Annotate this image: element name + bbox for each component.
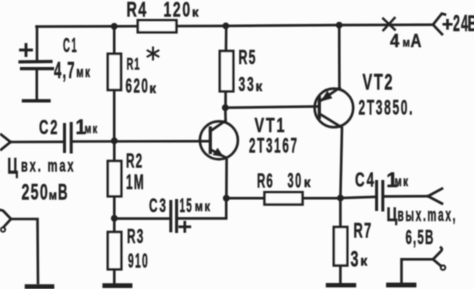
svg-text:1М: 1М (126, 171, 145, 194)
svg-text:2Т3850.: 2Т3850. (359, 95, 415, 120)
svg-text:910: 910 (128, 251, 149, 272)
svg-text:мк: мк (195, 199, 212, 215)
svg-text:к: к (360, 253, 368, 269)
svg-text:С2: С2 (39, 116, 59, 139)
svg-text:В: В (468, 11, 474, 36)
svg-text:120: 120 (164, 0, 192, 21)
svg-text:мк: мк (395, 173, 410, 189)
svg-text:В: В (58, 180, 68, 204)
svg-text:к: к (256, 79, 263, 94)
svg-text:30: 30 (288, 168, 303, 192)
svg-text:3: 3 (351, 246, 359, 271)
svg-text:вых.mах,: вых.mах, (398, 206, 458, 226)
svg-text:Ц: Ц (387, 203, 398, 226)
svg-text:мк: мк (76, 63, 91, 81)
svg-text:к: к (192, 5, 199, 20)
svg-text:мк: мк (85, 123, 99, 137)
svg-text:4,7: 4,7 (54, 57, 76, 83)
svg-text:24: 24 (453, 10, 469, 36)
svg-text:м: м (49, 187, 57, 202)
svg-text:м: м (403, 37, 411, 50)
svg-text:R5: R5 (239, 46, 257, 69)
svg-text:R7: R7 (354, 218, 373, 242)
svg-text:VT2: VT2 (363, 69, 395, 94)
svg-text:R2: R2 (126, 150, 143, 172)
svg-text:R4: R4 (127, 0, 148, 21)
svg-text:R6: R6 (257, 169, 274, 192)
svg-text:2Т3167: 2Т3167 (249, 134, 299, 157)
svg-text:вх. mах: вх. mах (21, 157, 75, 176)
svg-text:250: 250 (22, 179, 50, 204)
svg-text:С3: С3 (149, 196, 168, 216)
svg-text:А: А (411, 31, 422, 52)
svg-text:15: 15 (180, 196, 194, 217)
svg-text:620: 620 (126, 75, 150, 97)
svg-text:R1: R1 (127, 54, 141, 73)
svg-text:R3: R3 (127, 226, 144, 248)
svg-text:к: к (149, 81, 156, 96)
svg-text:4: 4 (390, 30, 399, 51)
svg-text:Ц: Ц (7, 153, 18, 178)
svg-text:С4: С4 (355, 169, 376, 191)
svg-text:С1: С1 (63, 35, 78, 57)
svg-text:к: к (304, 175, 311, 190)
svg-text:6,5В: 6,5В (406, 226, 435, 249)
svg-text:33: 33 (239, 73, 256, 96)
